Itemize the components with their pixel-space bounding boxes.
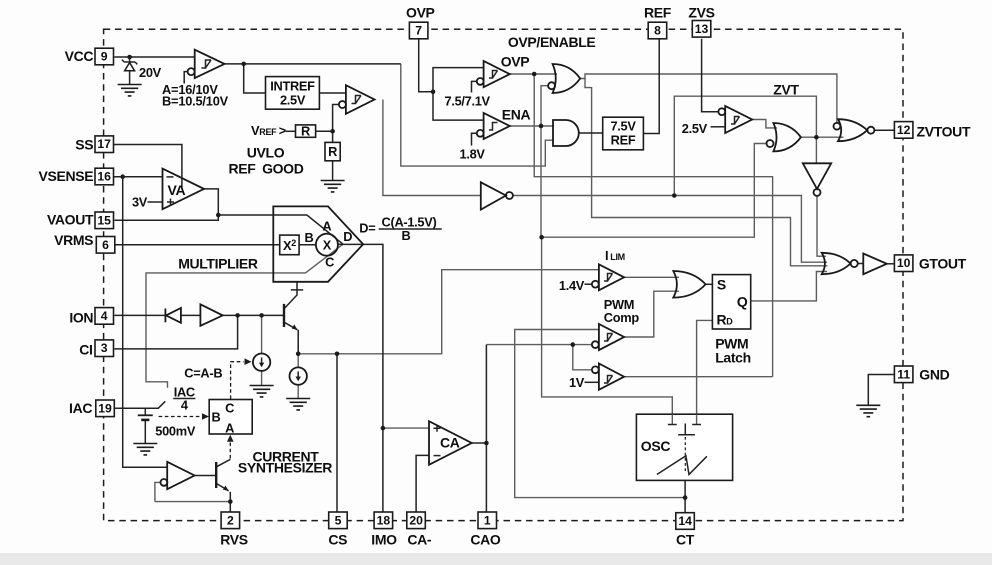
- svg-text:13: 13: [695, 22, 709, 36]
- svg-text:VA: VA: [168, 182, 186, 198]
- svg-text:R: R: [301, 124, 310, 139]
- svg-text:9: 9: [101, 50, 108, 64]
- svg-text:B: B: [305, 230, 314, 245]
- svg-text:15: 15: [97, 213, 111, 227]
- svg-text:10: 10: [897, 256, 911, 270]
- svg-text:6: 6: [102, 238, 109, 252]
- svg-text:C: C: [225, 401, 234, 416]
- svg-text:1.4V: 1.4V: [559, 278, 585, 293]
- svg-text:500mV: 500mV: [155, 424, 196, 439]
- svg-text:18: 18: [377, 513, 391, 527]
- svg-text:REF: REF: [611, 133, 636, 148]
- svg-text:MULTIPLIER: MULTIPLIER: [178, 256, 258, 272]
- svg-text:7: 7: [415, 24, 422, 38]
- svg-text:GND: GND: [919, 367, 949, 383]
- svg-text:8: 8: [654, 24, 661, 38]
- svg-text:VAOUT: VAOUT: [47, 212, 94, 228]
- svg-text:1: 1: [484, 513, 491, 527]
- svg-text:D: D: [343, 229, 352, 244]
- svg-text:A: A: [322, 219, 331, 234]
- svg-text:OVP: OVP: [406, 5, 435, 21]
- svg-text:REF GOOD: REF GOOD: [229, 161, 304, 177]
- svg-text:D=: D=: [359, 221, 375, 236]
- svg-text:IMO: IMO: [371, 532, 397, 548]
- svg-text:11: 11: [897, 367, 910, 381]
- svg-text:R: R: [328, 144, 337, 159]
- svg-text:16: 16: [97, 170, 111, 184]
- svg-text:SS: SS: [75, 137, 93, 153]
- svg-text:2: 2: [227, 513, 234, 527]
- svg-text:B: B: [402, 228, 411, 243]
- svg-text:1.8V: 1.8V: [460, 147, 486, 162]
- svg-text:CI: CI: [79, 341, 92, 357]
- svg-text:OVP/ENABLE: OVP/ENABLE: [508, 34, 596, 50]
- svg-text:CA: CA: [440, 435, 460, 451]
- svg-text:4: 4: [101, 309, 108, 323]
- svg-text:2.5V: 2.5V: [280, 93, 306, 108]
- svg-text:Comp: Comp: [604, 310, 640, 325]
- svg-text:Latch: Latch: [715, 350, 751, 366]
- svg-text:OSC: OSC: [641, 438, 671, 454]
- svg-text:7.5V: 7.5V: [610, 119, 636, 134]
- svg-text:RVS: RVS: [220, 532, 247, 548]
- svg-text:1V: 1V: [569, 375, 585, 390]
- svg-text:20V: 20V: [139, 65, 162, 80]
- svg-text:ION: ION: [69, 309, 93, 325]
- svg-text:VSENSE: VSENSE: [38, 168, 93, 184]
- svg-text:X: X: [323, 238, 332, 253]
- svg-text:B: B: [212, 410, 221, 425]
- svg-text:CT: CT: [676, 532, 695, 548]
- svg-text:CAO: CAO: [470, 532, 501, 548]
- svg-text:3V: 3V: [132, 195, 148, 210]
- svg-text:OVP: OVP: [501, 54, 530, 70]
- svg-text:2.5V: 2.5V: [682, 121, 708, 136]
- svg-text:INTREF: INTREF: [270, 79, 315, 94]
- svg-text:A: A: [225, 421, 234, 436]
- svg-text:VCC: VCC: [65, 48, 94, 64]
- svg-text:20: 20: [409, 513, 423, 527]
- svg-text:CA-: CA-: [407, 532, 432, 548]
- svg-text:S: S: [717, 277, 726, 293]
- svg-text:IAC: IAC: [69, 400, 92, 416]
- svg-text:ZVT: ZVT: [773, 82, 799, 98]
- svg-text:B=10.5/10V: B=10.5/10V: [162, 94, 229, 109]
- svg-text:7.5/7.1V: 7.5/7.1V: [445, 94, 491, 109]
- svg-text:3: 3: [101, 341, 108, 355]
- svg-text:19: 19: [98, 401, 112, 415]
- svg-text:12: 12: [897, 123, 911, 137]
- svg-text:5: 5: [335, 513, 342, 527]
- svg-text:17: 17: [97, 137, 111, 151]
- svg-text:C=A-B: C=A-B: [184, 366, 222, 381]
- svg-text:GTOUT: GTOUT: [919, 255, 967, 271]
- svg-text:UVLO: UVLO: [247, 145, 285, 161]
- svg-text:SYNTHESIZER: SYNTHESIZER: [238, 460, 332, 476]
- svg-text:CS: CS: [328, 532, 347, 548]
- svg-text:ENA: ENA: [502, 107, 531, 123]
- svg-text:4: 4: [181, 398, 189, 413]
- svg-text:ZVTOUT: ZVTOUT: [917, 124, 971, 140]
- svg-text:C: C: [325, 255, 334, 270]
- svg-text:REF: REF: [644, 5, 672, 21]
- svg-text:VRMS: VRMS: [54, 232, 93, 248]
- svg-text:ZVS: ZVS: [688, 5, 714, 21]
- svg-text:14: 14: [678, 514, 692, 528]
- svg-text:Q: Q: [737, 294, 748, 310]
